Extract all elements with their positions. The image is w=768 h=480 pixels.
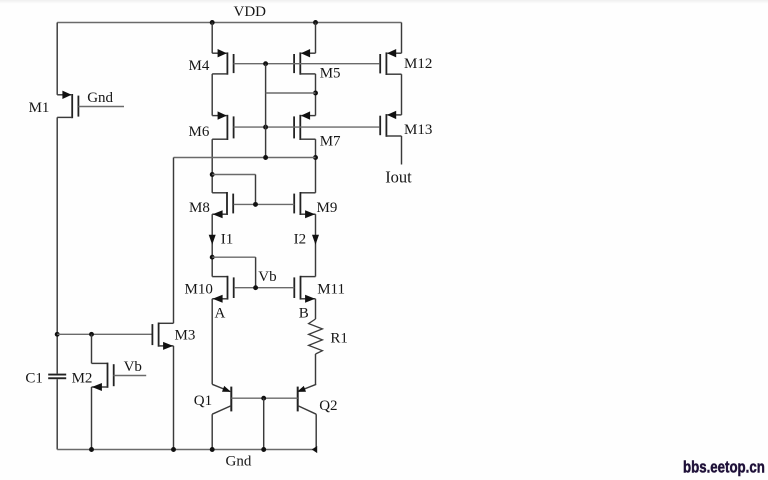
wire gate bus M8-M9 [234, 203, 295, 205]
wire M2 source drop [91, 334, 93, 363]
svg-text:M6: M6 [189, 124, 210, 140]
label Q2 [319, 398, 337, 414]
node M2 source tap [89, 332, 94, 337]
svg-text:A: A [215, 305, 226, 321]
node VDD-M5 junction [313, 20, 318, 25]
wire M12 drain to M13 source [401, 74, 403, 115]
label Vb at M2 gate [124, 359, 142, 375]
wire M13 drain Iout terminal [401, 136, 403, 165]
label I1 [221, 231, 234, 247]
wire M10 diode vertical [255, 257, 257, 288]
wire gate bus M10-M11 (Vb) [234, 287, 294, 289]
watermark bbs.eetop.cn [683, 459, 765, 476]
label R1 [330, 331, 348, 347]
node M8 diode tap [210, 172, 215, 177]
svg-text:M13: M13 [404, 122, 432, 138]
wire drain bus y157.5 [174, 157, 316, 159]
svg-text:M10: M10 [185, 282, 213, 298]
label I2 [294, 231, 307, 247]
node base bus tap [261, 396, 266, 401]
node M10-M11 gate junction [253, 285, 258, 290]
wire drain bus to M3 drain [173, 158, 175, 324]
transistor M11 [294, 276, 315, 303]
label M3 [175, 328, 196, 344]
wire R1 to Q2 emitter [315, 354, 317, 384]
wire M2 gate lead [113, 375, 146, 377]
svg-text:I1: I1 [221, 231, 234, 247]
wire bias vertical 63.7-157.5 [265, 64, 267, 158]
label M7 [320, 134, 341, 150]
ground rail end mark [312, 446, 317, 453]
transistor M3 [152, 323, 173, 350]
wire M1 drain to C1 [56, 117, 58, 373]
svg-text:C1: C1 [25, 371, 43, 387]
node M10 diode tap [210, 255, 215, 260]
wire VDD to M1 source [56, 23, 58, 95]
wire M3 source to ground [173, 346, 175, 450]
current arrow I2 [312, 235, 319, 245]
transistor M1 [57, 91, 78, 119]
wire Q1-Q2 base bus [231, 397, 297, 399]
svg-text:Vb: Vb [124, 359, 142, 375]
capacitor C1 [48, 374, 66, 380]
node Gnd-M2 junction [89, 447, 94, 452]
wire VDD to M12 source [401, 23, 403, 54]
node M8-M9 gate junction [253, 202, 258, 207]
wire M5 diode branch [266, 92, 316, 94]
wire M8 diode vertical [255, 175, 257, 205]
label M13 [404, 122, 432, 138]
transistor M7 [294, 111, 315, 140]
label M11 [317, 282, 345, 298]
svg-text:M4: M4 [189, 58, 210, 74]
svg-text:M5: M5 [320, 66, 341, 82]
svg-text:VDD: VDD [234, 4, 267, 20]
wire M3 gate bus [57, 333, 151, 335]
power rail Gnd [57, 449, 316, 451]
svg-text:M8: M8 [189, 200, 210, 216]
label Vb at M10 gate [258, 269, 276, 285]
wire base bus to ground [263, 398, 265, 449]
node bias-drain bus junction [263, 155, 268, 160]
svg-text:M7: M7 [320, 134, 341, 150]
transistor M12 [380, 49, 401, 75]
svg-text:I2: I2 [294, 231, 307, 247]
transistor M13 [380, 111, 401, 137]
svg-text:bbs.eetop.cn: bbs.eetop.cn [683, 459, 765, 476]
wire gate bus M6-M7-M13 [234, 126, 380, 128]
label Gnd [226, 454, 252, 470]
wire M2 drain to ground [91, 387, 93, 450]
label B [299, 305, 309, 321]
transistor M10 [212, 276, 234, 303]
svg-text:Gnd: Gnd [226, 454, 252, 470]
wire M10 diode top [212, 256, 255, 258]
transistor M9 [294, 192, 315, 218]
svg-text:Gnd: Gnd [87, 90, 113, 106]
label M6 [189, 124, 210, 140]
label Gnd at M1 gate [87, 90, 113, 106]
svg-text:M11: M11 [317, 282, 345, 298]
transistor Q2 [297, 384, 316, 414]
wire gate bus M4-M5-M12 [234, 63, 380, 65]
label M12 [404, 56, 432, 72]
node Gnd-Q1 junction [210, 447, 215, 452]
label C1 [25, 371, 43, 387]
label Iout [385, 168, 412, 187]
node Gnd-base junction [261, 447, 266, 452]
wire M9 drain to M11 source [315, 214, 317, 276]
wire M4 drain to M6 source [211, 74, 213, 116]
svg-text:M12: M12 [404, 56, 432, 72]
wire M7 drain to M9 source [315, 139, 317, 193]
wire M5 drain to M7 source [315, 74, 317, 116]
wire C1 to ground rail [56, 379, 58, 449]
node M5 diode junction [313, 91, 318, 96]
label VDD [234, 4, 267, 20]
svg-text:M3: M3 [175, 328, 196, 344]
label M4 [189, 58, 210, 74]
label M5 [320, 66, 341, 82]
node output wire junction [313, 155, 318, 160]
wire Q2 collector to ground [315, 414, 317, 449]
resistor R1 [309, 319, 323, 354]
wire M8 diode top [212, 174, 255, 176]
wire M8 drain to M10 source [211, 214, 213, 276]
current arrow I1 [209, 235, 216, 245]
wire VDD to M5 source [315, 23, 317, 54]
svg-text:M2: M2 [72, 371, 93, 387]
node VDD-M4 junction [210, 20, 215, 25]
label M8 [189, 200, 210, 216]
svg-text:M1: M1 [29, 100, 50, 116]
label M10 [185, 282, 213, 298]
node Gnd-M3 junction [171, 447, 176, 452]
wire M10 drain to Q1 emitter, node A [211, 299, 213, 385]
power rail VDD [57, 22, 401, 24]
node gate bus row1 junction [263, 61, 268, 66]
wire M11 drain to R1, node B [315, 299, 317, 319]
node M3 gate tap [55, 332, 60, 337]
transistor M6 [212, 111, 233, 140]
svg-text:R1: R1 [330, 331, 348, 347]
transistor M2 [92, 363, 114, 391]
wire M6 drain to M8 source [211, 139, 213, 193]
label Q1 [194, 393, 212, 409]
transistor M8 [212, 192, 233, 218]
svg-text:B: B [299, 305, 309, 321]
node gate bus row2 junction [263, 125, 268, 130]
transistor M4 [212, 49, 233, 75]
wire VDD to M4 source [211, 23, 213, 54]
label M2 [72, 371, 93, 387]
label M9 [317, 200, 338, 216]
svg-text:Iout: Iout [385, 168, 412, 187]
transistor Q1 [212, 384, 231, 414]
svg-text:M9: M9 [317, 200, 338, 216]
svg-text:Q2: Q2 [319, 398, 337, 414]
svg-text:Q1: Q1 [194, 393, 212, 409]
transistor M5 [294, 49, 315, 75]
svg-text:Vb: Vb [258, 269, 276, 285]
wire Q1 collector to ground [211, 414, 213, 449]
label M1 [29, 100, 50, 116]
label A [215, 305, 226, 321]
wire M1 gate lead [78, 106, 124, 108]
